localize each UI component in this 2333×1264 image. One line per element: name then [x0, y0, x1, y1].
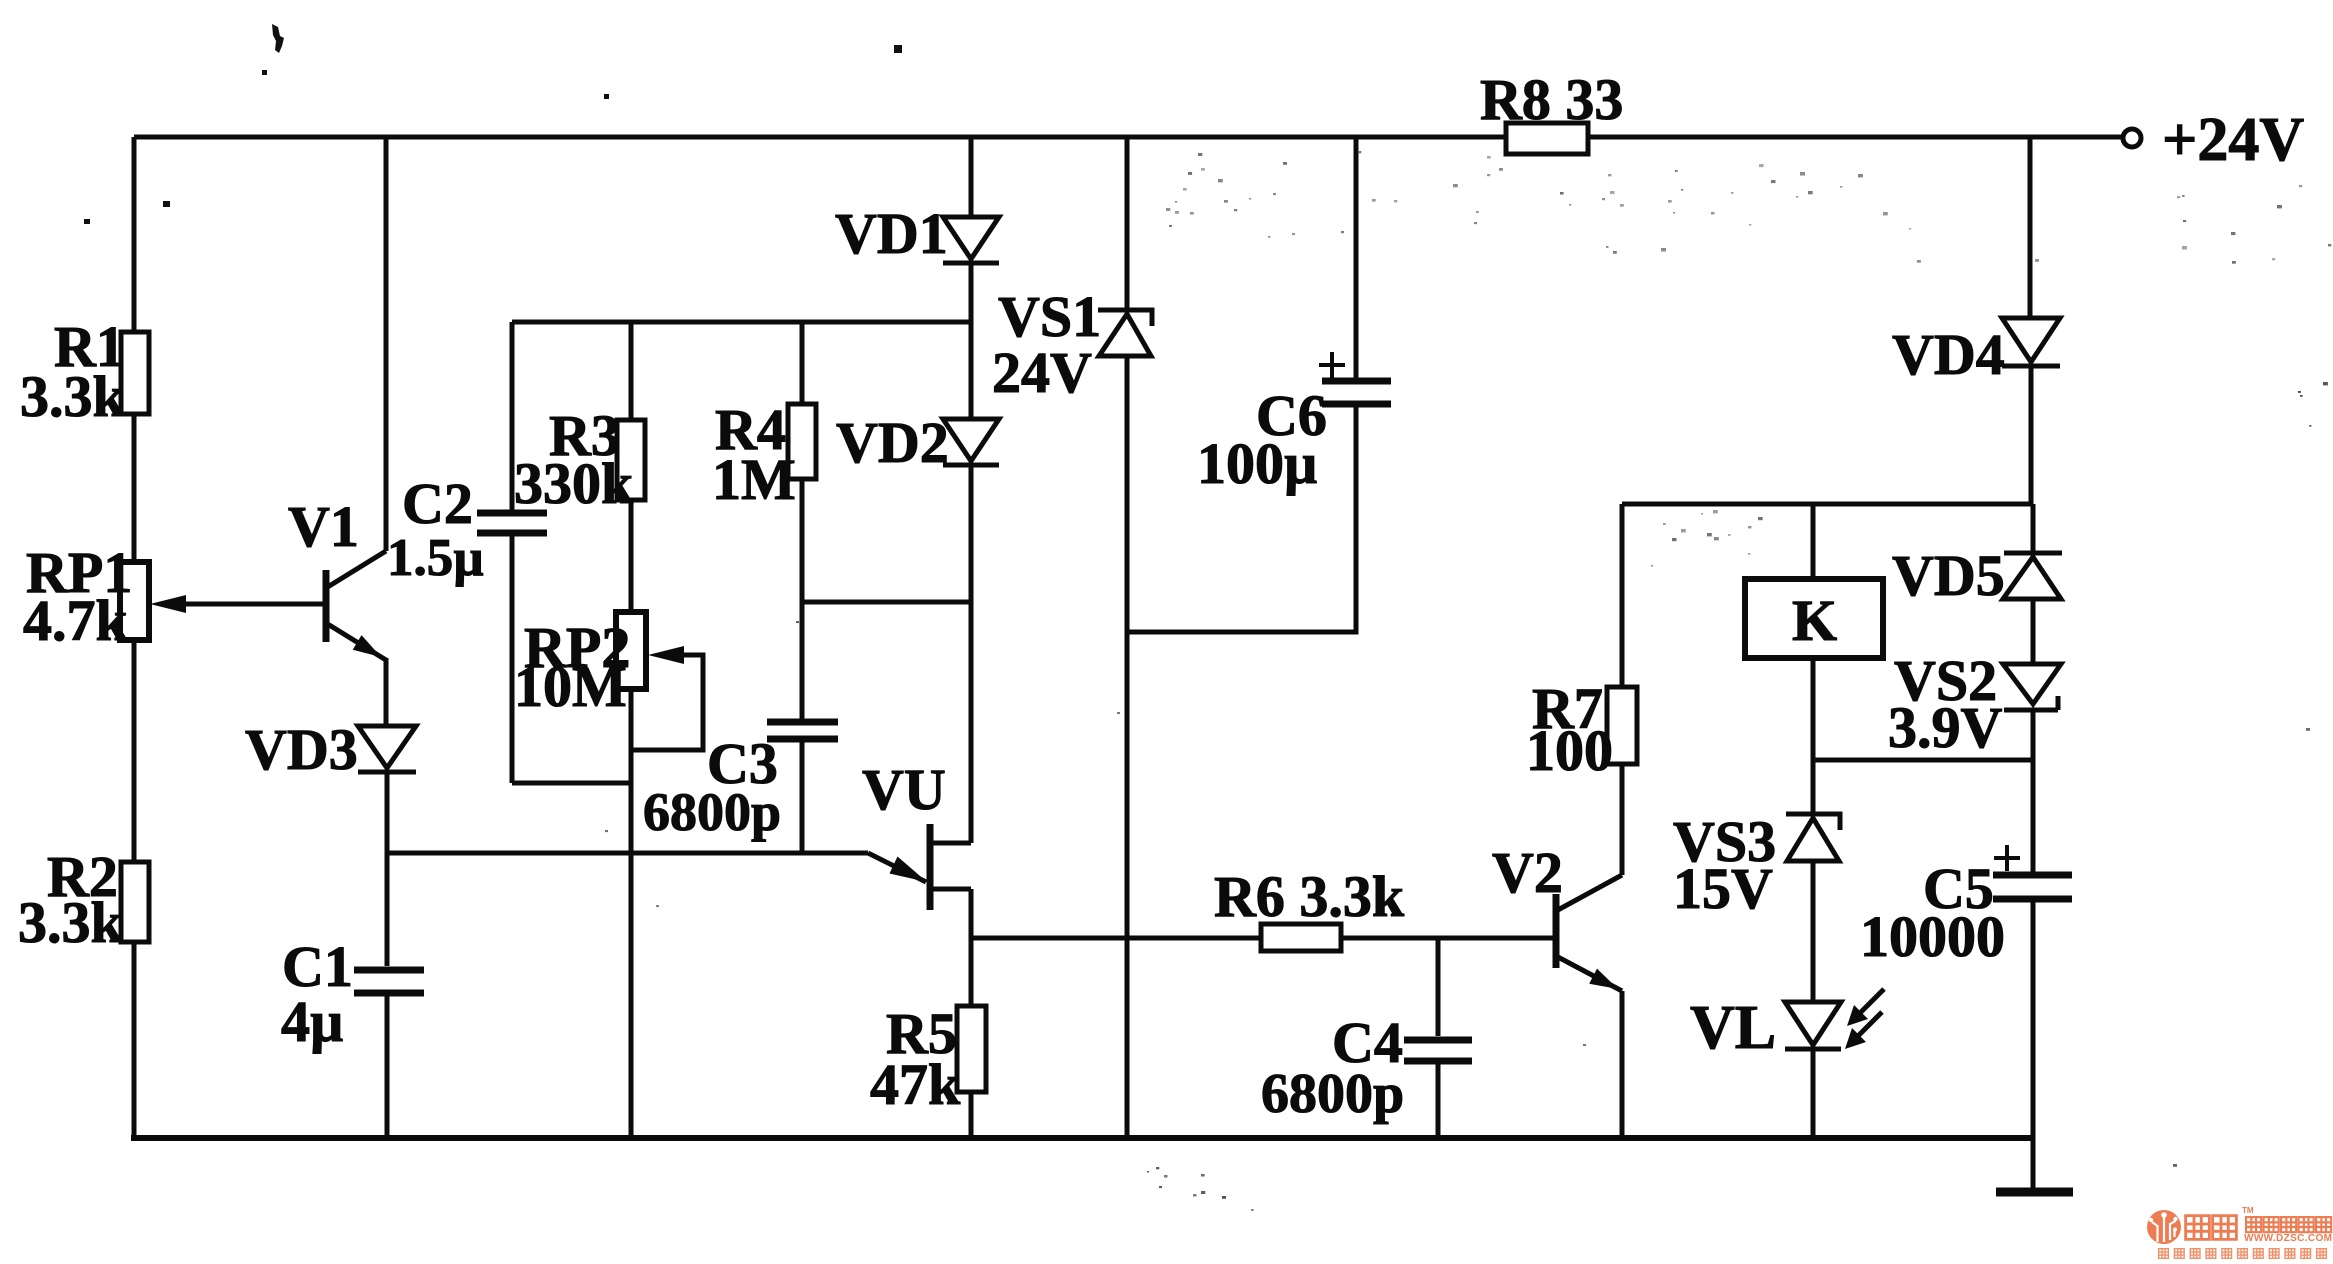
wire C6 bottom to VS1 line	[1127, 407, 1356, 632]
wire VS2 to C5	[2031, 710, 2036, 872]
wire VS3 top lead	[1811, 760, 1816, 814]
svg-text:330k: 330k	[514, 451, 634, 516]
node +24V terminal	[2123, 129, 2141, 147]
wire R4 top lead	[800, 322, 805, 404]
svg-text:15V: 15V	[1673, 856, 1773, 921]
resistor R3	[617, 420, 645, 500]
svg-text:1M: 1M	[712, 447, 796, 512]
svg-text:1.5µ: 1.5µ	[387, 529, 484, 587]
transistor VU unijunction	[868, 824, 971, 910]
LED VL	[1785, 989, 1884, 1049]
resistor R1	[121, 332, 149, 414]
diode VD4	[2002, 318, 2060, 366]
wire R5 to bottom rail	[969, 1092, 974, 1138]
svg-text:TM: TM	[2242, 1206, 2254, 1215]
wire VS1 line top	[1125, 137, 1130, 310]
svg-text:VD1: VD1	[835, 201, 948, 266]
capacitor C4	[1404, 1040, 1472, 1061]
wire V1 base to RP1 wiper	[181, 602, 325, 607]
svg-text:100µ: 100µ	[1197, 431, 1317, 496]
resistor R6	[1261, 924, 1341, 951]
wire VD1 line top	[969, 137, 974, 217]
svg-text:4.7k: 4.7k	[23, 588, 129, 653]
capacitor C3	[767, 722, 838, 739]
resistor R7	[1607, 687, 1637, 764]
wire VD5 to VS2	[2031, 599, 2036, 664]
wire C3 bottom to timing node	[800, 742, 805, 853]
wire VD5 top lead	[2031, 504, 2036, 551]
wire VD4 line top	[2028, 137, 2033, 318]
svg-text:VD5: VD5	[1892, 543, 2005, 608]
svg-text:VD3: VD3	[245, 717, 358, 782]
resistor R5	[957, 1006, 986, 1092]
wire R3 top lead	[629, 322, 634, 420]
svg-text:6800p: 6800p	[1261, 1063, 1404, 1125]
zener VS2	[2003, 664, 2061, 710]
svg-text:VU: VU	[862, 757, 946, 822]
wire C6 line top	[1354, 137, 1359, 378]
svg-text:R6 3.3k: R6 3.3k	[1214, 864, 1405, 929]
capacitor C2	[477, 513, 547, 533]
wire VD2 to VU b2	[969, 465, 974, 843]
wire VD2 cathode to R4/C3 node	[802, 600, 971, 605]
node C5 plus sign	[1994, 845, 2020, 871]
wire K top stub	[1811, 504, 1816, 579]
wire VL to bottom rail	[1811, 1049, 1816, 1138]
wire K/VS2 bottom link	[1813, 758, 2033, 763]
wire RP2 bottom to bottom rail	[629, 689, 634, 1138]
svg-text:K: K	[1792, 588, 1837, 653]
wire ground stub	[2031, 1138, 2036, 1188]
svg-text:3.3k: 3.3k	[20, 364, 126, 429]
svg-text:VD4: VD4	[1892, 322, 2005, 387]
svg-text:10000: 10000	[1860, 904, 2005, 969]
svg-text:47k: 47k	[870, 1052, 961, 1117]
diode VD5	[2003, 553, 2062, 599]
wire top +24V rail	[134, 135, 2122, 140]
wire box top edge	[512, 320, 971, 325]
node RP1 wiper arrow	[150, 595, 186, 613]
svg-text:3.3k: 3.3k	[18, 890, 124, 955]
wire VU b1 node to R6	[971, 936, 1261, 941]
svg-text:3.9V: 3.9V	[1888, 695, 2003, 760]
diode VD3	[358, 726, 416, 772]
potentiometer RP1	[120, 562, 149, 640]
wire relay top rail	[1622, 502, 2031, 507]
zener VS3	[1786, 814, 1840, 861]
node RP2 wiper arrow and loop	[631, 646, 703, 750]
scan noise specks	[605, 151, 2331, 1211]
wire V2 emitter to bottom rail	[1620, 991, 1625, 1138]
node C6 plus sign	[1319, 352, 1345, 378]
wire C1 to bottom rail	[385, 996, 390, 1138]
diode VD1	[943, 217, 999, 263]
svg-text:VD2: VD2	[836, 410, 949, 475]
wire C5 to bottom rail	[2031, 902, 2036, 1138]
watermark weiku logo	[2140, 1198, 2333, 1264]
wire V1 emitter to VD3	[384, 658, 389, 726]
svg-text:+24V: +24V	[2162, 106, 2304, 174]
diode VD2	[943, 419, 999, 465]
svg-text:100: 100	[1526, 718, 1613, 783]
wire R7 to V2 collector	[1620, 764, 1625, 875]
wire timing node horizontal (VD3/C1 to VU emitter)	[387, 851, 868, 856]
wire box left edge upper	[510, 322, 515, 510]
wire bottom ground rail	[131, 1135, 2033, 1141]
wire C4 top lead	[1436, 938, 1441, 1036]
wire V1 collector to rail	[384, 137, 389, 551]
transistor V2	[1556, 875, 1622, 991]
wire C4 to bottom rail	[1436, 1064, 1441, 1138]
wire VU b1 down	[969, 889, 974, 1006]
capacitor C1	[354, 970, 424, 993]
wire VS1 anode to bottom rail	[1125, 356, 1130, 1138]
svg-text:VL: VL	[1690, 994, 1776, 1062]
wire VD4 to relay node	[2029, 366, 2034, 504]
resistor R4	[788, 404, 816, 479]
wire R4 bottom to node	[800, 479, 805, 719]
svg-text:4µ: 4µ	[281, 989, 343, 1054]
wire VD1 to VD2	[969, 263, 974, 419]
ground	[1996, 1188, 2073, 1197]
svg-text:10M: 10M	[514, 654, 627, 719]
resistor R2	[121, 862, 149, 942]
svg-text:R8 33: R8 33	[1480, 67, 1623, 132]
wire VS3 to VL	[1811, 861, 1816, 1002]
wire K bottom to node	[1811, 658, 1816, 760]
svg-text:C2: C2	[402, 471, 473, 536]
svg-text:6800p: 6800p	[643, 782, 781, 842]
wire box left edge lower	[510, 536, 515, 783]
svg-text:24V: 24V	[992, 340, 1092, 405]
capacitor C5	[1993, 875, 2072, 899]
wire R3 to RP2	[629, 500, 634, 612]
wire VD3 to C1	[385, 772, 390, 966]
wire left column	[132, 137, 137, 1139]
zener VS1	[1098, 310, 1152, 356]
relay K	[1745, 579, 1883, 658]
capacitor C6	[1322, 381, 1391, 404]
potentiometer RP2	[616, 612, 646, 689]
transistor V1	[326, 551, 386, 660]
resistor R8	[1506, 123, 1588, 154]
wire box bottom edge	[512, 781, 631, 786]
wire R7 top lead	[1620, 504, 1625, 687]
wire R6 to V2 base	[1341, 936, 1554, 941]
svg-text:WWW.DZSC.COM: WWW.DZSC.COM	[2244, 1233, 2332, 1244]
svg-text:V1: V1	[288, 494, 359, 559]
svg-text:V2: V2	[1492, 840, 1563, 905]
